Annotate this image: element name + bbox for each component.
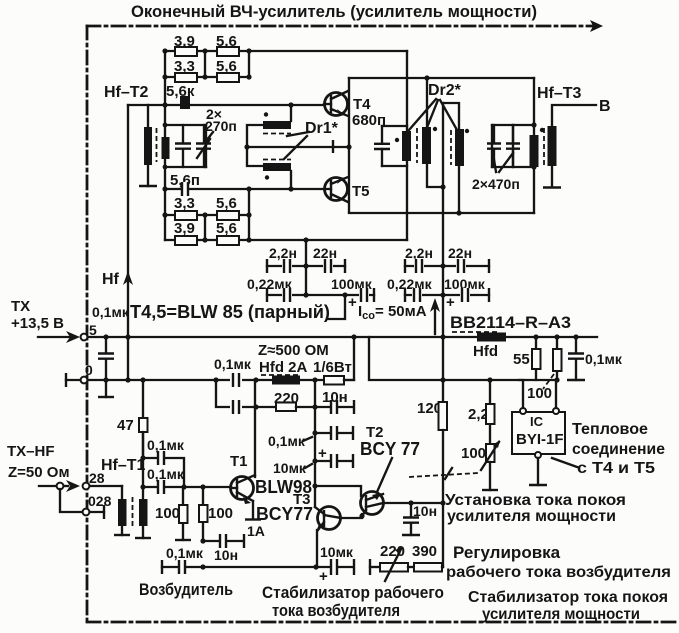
wire column x249 bottom <box>248 189 250 240</box>
svg-text:0,1мк: 0,1мк <box>268 433 306 449</box>
wire T4 base line y105 <box>128 104 324 106</box>
Dr1 core dashed lines <box>263 134 291 160</box>
svg-text:2×470п: 2×470п <box>472 176 520 192</box>
svg-text:+: + <box>318 445 327 462</box>
wire decoupling row2 left y295 <box>267 294 374 296</box>
svg-text:Hf–T2: Hf–T2 <box>104 84 149 101</box>
Dr2 pointer lines <box>409 99 457 130</box>
svg-text:2,2н: 2,2н <box>269 245 297 261</box>
transformer Hf-T3 primary winding (on frame edge) <box>530 135 539 167</box>
transformer Hf-T1 primary lead <box>121 486 123 500</box>
wire Dr2 w3 bottom lead to T5 collector edge <box>458 166 460 213</box>
svg-text:47: 47 <box>117 417 134 434</box>
wire Dr2 w2 bottom lead to supply bus <box>427 164 443 187</box>
wire row y77 <box>165 76 249 78</box>
svg-text:0,1мк: 0,1мк <box>585 351 623 367</box>
svg-text:BCY 77: BCY 77 <box>360 439 420 459</box>
capacitor 10н T2 <box>410 503 412 535</box>
wire ground rail y380 left segment <box>88 379 354 381</box>
choke Dr2 winding 3 <box>455 129 464 166</box>
wire row y458 <box>143 458 184 487</box>
svg-text:Iсо= 50мА: Iсо= 50мА <box>358 303 427 322</box>
svg-text:рабочего тока возбудителя: рабочего тока возбудителя <box>446 564 671 581</box>
svg-text:100: 100 <box>461 445 486 462</box>
svg-text:Z≈500 ОМ: Z≈500 ОМ <box>258 342 329 359</box>
ferrite bead 5,6k stub <box>184 97 186 105</box>
tick bar left of terminal 0 <box>66 379 80 381</box>
wire column x165 top network <box>164 51 166 105</box>
ground Hf-T1 primary <box>121 526 123 535</box>
resistor 5,6 (top row) <box>217 47 239 56</box>
svg-text:390: 390 <box>412 543 437 560</box>
svg-text:Возбудитель: Возбудитель <box>139 580 233 599</box>
pointer to с T4 и T5 <box>552 458 577 467</box>
ferrite bead Hfd 2A <box>272 376 300 385</box>
resistor 5,6 (row y240) <box>217 236 239 245</box>
svg-text:Установка тока покоя: Установка тока покоя <box>445 492 626 509</box>
svg-text:0,1мк: 0,1мк <box>147 466 185 482</box>
ground Hf-T3 <box>543 186 561 188</box>
svg-text:270п: 270п <box>205 118 237 134</box>
enclosure dash-dot border top with arrow <box>87 25 595 28</box>
svg-text:100: 100 <box>208 505 233 522</box>
svg-text:1/6Вт: 1/6Вт <box>313 359 352 376</box>
collector frame left edge x349 <box>348 78 350 212</box>
svg-text:0: 0 <box>85 362 93 378</box>
svg-text:10н: 10н <box>322 389 348 406</box>
resistor 100 trimmer (bias set) <box>556 337 558 380</box>
wire column x205 <box>204 51 206 77</box>
wire T3 emitter down <box>316 530 318 567</box>
svg-text:0,1мк: 0,1мк <box>166 545 204 561</box>
svg-text:T5: T5 <box>352 183 370 200</box>
choke Dr2 winding 2 <box>422 127 431 164</box>
corner up x354 to supply rail <box>344 337 354 380</box>
IC box BYI-1F <box>512 412 565 454</box>
wire Dr1 winding1 top lead to T4 base <box>290 105 292 121</box>
capacitor 22н right <box>456 259 466 273</box>
wire Dr2 w3 top loop to bus <box>443 103 459 129</box>
svg-text:0,1мк: 0,1мк <box>214 356 252 372</box>
svg-text:0,1мк: 0,1мк <box>147 437 185 453</box>
IC pins <box>520 408 526 414</box>
svg-text:+: + <box>446 294 455 311</box>
transformer Hf-T2 primary winding <box>144 127 152 165</box>
capacitor 470п trimmer <box>512 125 514 167</box>
wire column x205 bottom <box>204 215 206 240</box>
Dr2 core dashes <box>417 128 451 165</box>
ground Hf-T2 primary <box>139 185 157 187</box>
resistor 3,9 (row y240) <box>175 236 197 245</box>
wire column x165 bottom network <box>164 188 166 240</box>
collector frame right edge x534 <box>533 78 535 213</box>
svg-text:22н: 22н <box>448 245 472 261</box>
svg-text:100: 100 <box>155 505 180 522</box>
wire row y487 T1 base <box>143 486 231 488</box>
wire Hf-T3 secondary bottom <box>551 166 553 186</box>
IC pin leads <box>519 380 523 408</box>
Hf-T3 polarity dot <box>540 128 544 132</box>
wire Hf-T3 secondary top to output B <box>552 105 596 126</box>
wire decoupling row1 right y266 <box>405 265 489 267</box>
capacitor box 2x470п <box>492 125 534 167</box>
resistor 1/6Вт <box>324 376 344 385</box>
bracket Ico measuring hook <box>327 295 345 319</box>
svg-text:усилителя мощности: усилителя мощности <box>482 606 640 623</box>
svg-text:TX–HF: TX–HF <box>7 443 55 460</box>
svg-text:Тепловое: Тепловое <box>572 421 648 438</box>
ground stub under entry cap <box>105 380 107 397</box>
wire row y240 to corner x407 <box>165 239 407 241</box>
capacitor 270p fixed <box>182 125 184 167</box>
svg-text:1A: 1A <box>247 523 265 539</box>
transformer Hf-T3 secondary winding <box>548 126 557 166</box>
Hf arrow on feed line <box>123 271 133 285</box>
capacitor 0,22мк left <box>282 288 292 302</box>
collector frame top edge y78 <box>349 77 534 79</box>
transformer Hf-T2 secondary winding (on main column) <box>162 137 170 159</box>
enclosure dash-dot border left <box>86 26 89 622</box>
svg-text:T4: T4 <box>353 96 371 113</box>
feedback line x407 vertical <box>406 51 408 240</box>
supply bus x443 vertical (top part) <box>442 103 444 402</box>
svg-text:3,9: 3,9 <box>174 220 195 237</box>
svg-text:Hf: Hf <box>102 271 120 288</box>
capacitor 0,1мк on rail y380 <box>230 373 242 387</box>
input arrow line <box>38 336 70 338</box>
svg-text:IC: IC <box>530 414 544 429</box>
svg-text:10н: 10н <box>214 547 238 563</box>
svg-text:22н: 22н <box>313 245 337 261</box>
svg-text:028: 028 <box>88 493 112 509</box>
neutralizing box 2x270p top <box>165 124 206 126</box>
capacitor 0,22мк right <box>412 288 422 302</box>
svg-text:Hf–T3: Hf–T3 <box>537 85 582 102</box>
tick bar on emitter wire <box>332 140 334 153</box>
transformer Hf-T2 core <box>156 128 158 162</box>
wire decoupling row2 right y295 <box>405 294 489 296</box>
svg-text:3,3: 3,3 <box>174 195 195 212</box>
svg-text:10мк: 10мк <box>273 460 307 476</box>
pointer from label to T2 <box>377 458 392 492</box>
svg-text:с T4 и T5: с T4 и T5 <box>577 460 655 477</box>
svg-text:соединение: соединение <box>572 441 665 458</box>
wire column x249 <box>248 51 250 77</box>
ferrite bead w1 on feedback line <box>402 131 411 161</box>
transformer Hf-T1 secondary winding <box>139 499 148 526</box>
svg-text:Dr1*: Dr1* <box>305 120 339 137</box>
neutralizing box bottom <box>165 166 206 168</box>
capacitor 2,2н left <box>282 259 292 273</box>
ferrite bead Hfd on supply rail <box>477 333 506 342</box>
ground Hf-T1 secondary <box>142 526 144 538</box>
resistor 3,3 (second row) <box>175 73 197 82</box>
dashed pointer (Установка) <box>409 473 478 477</box>
svg-text:TX: TX <box>11 298 30 315</box>
svg-text:BCY77: BCY77 <box>256 504 313 524</box>
capacitor 680п box <box>382 126 407 166</box>
enclosure dash-dot border bottom <box>87 621 679 624</box>
svg-text:2,2н: 2,2н <box>405 245 433 261</box>
svg-text:0,1мк: 0,1мк <box>92 304 130 320</box>
wire Dr2 w2 top lead <box>426 78 428 127</box>
transformer Hf-T2 primary top lead <box>147 105 149 130</box>
measuring arrow up <box>434 305 436 334</box>
capacitor 0,1мк row2 <box>230 400 242 414</box>
bottom row y567 <box>161 560 163 574</box>
wire main column x165 down through neutralizing box <box>164 105 166 188</box>
node dots on base line <box>162 102 167 107</box>
svg-text:Hfd: Hfd <box>473 343 498 360</box>
pointer from label to trimmer <box>206 132 213 141</box>
svg-text:усилителя мощности: усилителя мощности <box>447 508 616 525</box>
wire T3 collector to T2 emitter <box>340 514 362 518</box>
svg-text:28: 28 <box>89 470 105 486</box>
svg-text:100: 100 <box>527 385 552 402</box>
bias row2 y407 <box>216 380 256 407</box>
terminal 28 <box>83 483 90 490</box>
bias bus x315 down <box>314 380 316 507</box>
capacitor 10н row2 <box>315 406 352 408</box>
capacitor 100мк right (+) <box>460 288 470 302</box>
svg-text:220: 220 <box>380 543 405 560</box>
capacitor 0,1мк entry <box>105 337 107 380</box>
collector frame bottom edge y213 <box>349 212 534 214</box>
transistor T4 <box>325 93 348 116</box>
transistor T3 <box>318 507 341 530</box>
dashed underline BB2114 <box>452 331 500 333</box>
capacitor 2,2н right <box>414 259 424 273</box>
Dr2 polarity dots <box>433 127 437 131</box>
ferrite bead 5,6k <box>180 96 190 109</box>
supply rail y337 <box>88 336 597 338</box>
svg-text:Hf–T1: Hf–T1 <box>101 457 146 474</box>
T1 collector column x255 <box>254 380 256 477</box>
wire decoupling row1 left y266 <box>267 265 345 267</box>
resistor 3,3 (row y215) <box>175 211 197 220</box>
svg-text:55: 55 <box>513 351 530 368</box>
choke Dr1 winding 1 <box>263 121 291 129</box>
junction dots top network <box>162 48 167 53</box>
svg-text:+: + <box>348 294 357 311</box>
svg-text:10мк: 10мк <box>320 544 354 560</box>
capacitor 5,6п series <box>181 182 189 197</box>
potentiometer 100 (idle current set) <box>486 444 495 462</box>
resistor 3,9 (top row) <box>175 47 197 56</box>
terminal circle 0 <box>81 377 88 384</box>
wire Hf-T2 primary bottom lead <box>147 165 149 186</box>
input shield drop <box>60 489 82 512</box>
capacitor 100мк left (+) <box>359 288 369 302</box>
transistor T5 <box>325 178 348 201</box>
polarity dot 680п box <box>395 138 399 142</box>
trimmer arrow <box>197 139 210 158</box>
svg-text:Оконечный ВЧ-усилитель (усили: Оконечный ВЧ-усилитель (усилитель мощнос… <box>131 2 537 21</box>
neutralizing box right edge <box>205 125 207 167</box>
svg-text:Hfd 2A: Hfd 2A <box>259 359 308 376</box>
wire T5 base line y189 <box>165 188 324 190</box>
svg-text:5,6: 5,6 <box>216 195 237 212</box>
svg-text:Регулировка: Регулировка <box>453 543 561 562</box>
wire Dr1 left common column <box>247 125 263 166</box>
svg-text:Dr2*: Dr2* <box>428 82 462 99</box>
svg-text:BYI-1F: BYI-1F <box>516 431 564 448</box>
resistor 220 <box>256 406 276 408</box>
transformer Hf-T1 primary winding <box>118 499 127 526</box>
resistor 5,6 (row y215) <box>217 211 239 220</box>
capacitor 22н left <box>323 259 333 273</box>
wire Dr1 winding2 bottom lead to T5 base <box>290 171 292 189</box>
choke Dr1 winding 2 <box>263 163 291 171</box>
transistor T2 <box>361 492 384 515</box>
wire row y215 <box>165 214 249 216</box>
wire ground rail y380 right segment <box>369 337 557 380</box>
svg-text:тока возбудителя: тока возбудителя <box>272 601 400 620</box>
wire Dr1 centre to emitter rail y147 <box>247 146 349 148</box>
capacitor 270p trimmer <box>203 125 205 167</box>
Dr1 pointer lines <box>284 132 309 159</box>
wire 10н row y541 <box>203 540 243 542</box>
terminal 028 <box>83 509 90 516</box>
svg-text:B: B <box>599 98 611 115</box>
pointer V to label 2x470п <box>493 153 513 172</box>
svg-text:T1: T1 <box>230 453 248 470</box>
svg-text:Стабилизатор тока покоя: Стабилизатор тока покоя <box>468 589 668 606</box>
svg-text:Z=50 Ом: Z=50 Ом <box>8 464 70 481</box>
svg-text:BB2114–R–A3: BB2114–R–A3 <box>450 313 571 332</box>
svg-text:T4,5=BLW 85 (парный): T4,5=BLW 85 (парный) <box>130 302 330 322</box>
T1 emitter lead and 1A bar <box>252 501 254 519</box>
Dr1 polarity dots <box>264 112 268 116</box>
capacitor 470п fixed <box>493 125 495 167</box>
terminal circle 5 <box>81 334 88 341</box>
transformer Hf-T1 core <box>132 497 134 528</box>
svg-text:0,22мк: 0,22мк <box>387 276 433 292</box>
svg-text:5: 5 <box>89 322 97 338</box>
transformer Hf-T3 core <box>543 128 545 165</box>
svg-text:Стабилизатор рабочего: Стабилизатор рабочего <box>262 583 444 602</box>
wire T2 output y503 <box>384 502 443 504</box>
dashed underline Hfd 2A <box>261 374 299 376</box>
svg-text:5,6: 5,6 <box>216 220 237 237</box>
resistor 5,6 (second row) <box>217 73 239 82</box>
wire T2 base y486 <box>315 486 361 496</box>
svg-text:+13,5 В: +13,5 В <box>11 315 64 332</box>
wire left feed corner down x128 <box>127 105 129 379</box>
wire row y51 top feedback to corner <box>165 50 407 52</box>
wire centre column left group <box>305 240 307 295</box>
